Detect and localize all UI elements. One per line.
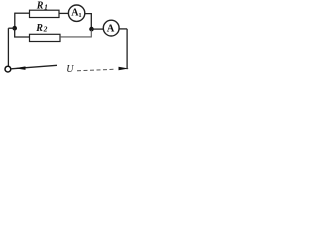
wire R2 right to junction <box>60 30 91 37</box>
arrow U to corner <box>119 67 129 71</box>
wire A to right rail <box>119 28 127 30</box>
junction dot <box>89 27 94 32</box>
resistor R1 <box>30 10 60 17</box>
junction dot left <box>12 26 17 31</box>
wire bottom left <box>11 65 57 69</box>
terminal circle <box>5 66 11 72</box>
svg-text:U: U <box>66 64 74 75</box>
wire left dot down to R2 <box>15 28 30 37</box>
arrow current direction <box>15 66 26 70</box>
ammeter A1 <box>68 5 84 21</box>
wire left dot stub to outer rail <box>8 27 14 29</box>
wire right rail <box>126 29 128 69</box>
wire outer left rail down <box>7 28 9 66</box>
svg-text:R1: R1 <box>36 1 48 12</box>
svg-text:A: A <box>107 24 115 35</box>
wire junction to A <box>92 28 104 30</box>
wire R1 to A1 <box>59 12 68 14</box>
resistor R2 <box>30 34 61 41</box>
dashed line U <box>77 69 116 71</box>
wire top-left corner to R1 <box>15 12 30 14</box>
svg-text:R2: R2 <box>35 23 47 34</box>
ammeter A <box>103 20 119 36</box>
wire left rail upper <box>14 13 16 29</box>
wire A1 right then down to junction <box>85 14 92 29</box>
